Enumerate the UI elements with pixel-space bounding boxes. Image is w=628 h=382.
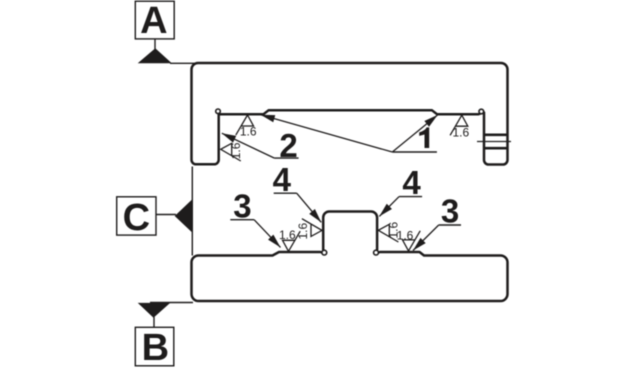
- insert centre line: [477, 141, 511, 143]
- boss base relief notch right: [374, 250, 379, 255]
- svg-text:4: 4: [402, 164, 421, 201]
- upper die cavity relief notch right: [479, 109, 484, 114]
- svg-text:3: 3: [233, 187, 251, 224]
- datum C leader: [156, 214, 176, 216]
- callout 3 left underline: [230, 219, 254, 221]
- svg-text:1.6: 1.6: [279, 228, 296, 242]
- roughness symbol ceiling right: [450, 115, 468, 135]
- roughness symbol boss left wall: [302, 219, 322, 237]
- svg-text:1.6: 1.6: [296, 223, 310, 240]
- svg-text:1.6: 1.6: [397, 229, 414, 243]
- callout 1 underline: [392, 151, 437, 153]
- callout 1 leader right: [392, 115, 437, 152]
- datum A base line: [170, 62, 195, 64]
- insert thread line upper: [484, 134, 507, 137]
- boss base relief notch left: [322, 250, 327, 255]
- callout 4 right underline: [399, 196, 422, 198]
- callout 4 left underline: [274, 192, 297, 194]
- roughness symbol ceiling left: [236, 115, 254, 135]
- svg-text:A: A: [140, 0, 167, 42]
- callout 4 left leader: [297, 193, 322, 222]
- datum B frame: [135, 327, 174, 366]
- svg-text:4: 4: [273, 161, 292, 198]
- svg-text:3: 3: [441, 193, 459, 230]
- callout 1 numeral: [419, 127, 429, 148]
- datum B triangle: [138, 303, 171, 318]
- datum A triangle: [138, 48, 172, 63]
- roughness symbol pad left: [283, 231, 301, 251]
- datum C extension line: [191, 167, 193, 256]
- datum C frame: [117, 197, 156, 235]
- datum A frame: [135, 1, 174, 39]
- datum B stem: [153, 317, 155, 327]
- datum C triangle: [175, 199, 193, 232]
- callout 3 left leader: [254, 220, 280, 248]
- callout 2 leader: [222, 133, 275, 158]
- callout 3 right leader: [413, 225, 439, 251]
- callout 1 leader left: [261, 115, 393, 152]
- roughness symbol boss right wall: [378, 224, 398, 242]
- callout 3 right underline: [439, 224, 461, 226]
- callout 2 underline: [274, 157, 298, 159]
- svg-text:1.6: 1.6: [229, 142, 243, 159]
- upper die outline: [192, 63, 508, 165]
- insert thread line lower: [484, 147, 507, 150]
- datum A stem: [154, 39, 156, 50]
- datum B base line: [150, 302, 193, 304]
- roughness symbol left wall: [221, 143, 241, 161]
- svg-text:1.6: 1.6: [452, 126, 469, 140]
- svg-text:B: B: [142, 327, 169, 369]
- roughness symbol pad right: [403, 231, 421, 251]
- upper die cavity relief notch left: [216, 109, 221, 114]
- lower die outline: [192, 212, 508, 302]
- callout 4 right leader: [379, 197, 399, 217]
- svg-text:C: C: [123, 197, 150, 239]
- svg-text:1.6: 1.6: [240, 124, 257, 138]
